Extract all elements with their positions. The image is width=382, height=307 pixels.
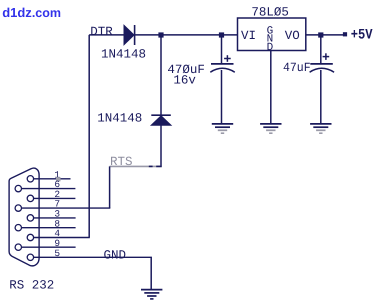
- pin 3 circle: [27, 215, 33, 221]
- grey junction blob between 1 and 6: [56, 177, 61, 181]
- pin 1 circle: [27, 176, 33, 182]
- ground symbol under regulator: [260, 124, 281, 133]
- pin number 9: [54, 238, 60, 249]
- wire riser from VO junction down to capacitor C2: [320, 35, 322, 64]
- pin 2 circle: [27, 195, 33, 201]
- wire VO output rail to +5V terminal: [306, 34, 344, 36]
- value label 470uF: [167, 63, 205, 77]
- wire pin 4 to DTR bus: [34, 237, 90, 239]
- svg-text:d1dz.com: d1dz.com: [2, 5, 61, 20]
- connector J1 DB9 outline: [9, 168, 39, 266]
- svg-text:RS 232: RS 232: [9, 279, 54, 293]
- wire pin 2 stub: [34, 197, 76, 199]
- junction node rail/D2 riser: [158, 32, 163, 37]
- svg-text:78LØ5: 78LØ5: [251, 6, 289, 20]
- pin label VI: [241, 29, 256, 43]
- wire from D2 anode down to RTS corner: [160, 125, 162, 166]
- capacitor C1 470uF polarized: [210, 64, 235, 123]
- wire pin 9 stub: [22, 246, 76, 248]
- label DTR: [90, 25, 113, 39]
- wire main rail from D1 cathode to regulator VI pin: [135, 34, 238, 36]
- value label 1N4148 (D1): [101, 47, 146, 61]
- wire DTR horizontal from left corner to diode D1 anode: [89, 34, 124, 36]
- wire regulator GND pin down to ground: [270, 51, 272, 124]
- pin number 6: [54, 179, 60, 190]
- pin 8 circle: [15, 225, 21, 231]
- terminal square +5V: [343, 32, 347, 36]
- value label 47uF: [283, 61, 311, 75]
- logo d1dz.com: [2, 5, 61, 20]
- label GND net: [104, 249, 127, 263]
- pin number 7: [54, 199, 60, 210]
- label +5V: [351, 28, 373, 44]
- ground symbol bottom (GND net): [141, 290, 162, 299]
- wire RTS riser down to pin 7: [109, 166, 111, 208]
- wire GND drop down to ground: [150, 257, 152, 289]
- label RS 232: [9, 279, 54, 293]
- svg-text:VI: VI: [241, 29, 256, 43]
- svg-text:+5V: +5V: [351, 28, 373, 44]
- ground symbol under C1: [212, 124, 233, 133]
- wire riser from rail down to D2 cathode: [160, 35, 162, 115]
- value label 16v: [173, 74, 196, 88]
- plus polarity mark of C1: [224, 55, 231, 62]
- svg-text:1N4148: 1N4148: [101, 47, 146, 61]
- pin number 4: [54, 228, 60, 239]
- wire pin 5 to GND drop: [34, 256, 152, 258]
- pin number 2: [54, 189, 60, 200]
- capacitor C2 47uF polarized: [310, 64, 335, 123]
- pin number 1: [54, 169, 60, 180]
- svg-text:5: 5: [54, 248, 60, 259]
- pin 4 circle: [27, 234, 33, 240]
- junction node rail/C1 riser: [219, 32, 224, 37]
- pin 6 circle: [15, 185, 21, 191]
- value label 1N4148 (D2): [97, 112, 142, 126]
- svg-text:16v: 16v: [173, 74, 196, 88]
- svg-text:RTS: RTS: [110, 155, 133, 169]
- label RTS: [110, 155, 133, 169]
- pin 7 circle: [15, 205, 21, 211]
- svg-text:GND: GND: [104, 249, 127, 263]
- svg-text:47uF: 47uF: [283, 61, 311, 75]
- pin label VO: [285, 29, 300, 43]
- junction node VO rail/C2 riser: [318, 32, 323, 37]
- diode D2 1N4148 (RTS diode, pointing up): [151, 115, 171, 125]
- wire pin 3 stub: [34, 217, 76, 219]
- pin 9 circle: [15, 244, 21, 250]
- wire pin 8 stub: [22, 227, 76, 229]
- wire riser from rail junction down to capacitor C1: [221, 35, 223, 64]
- pin number 8: [54, 218, 60, 229]
- pin number 5: [54, 248, 60, 259]
- pin 5 circle: [27, 254, 33, 260]
- svg-text:VO: VO: [285, 29, 300, 43]
- svg-text:1N4148: 1N4148: [97, 112, 142, 126]
- svg-text:DTR: DTR: [90, 25, 113, 39]
- regulator U1 78L05 box: [238, 18, 306, 51]
- wire RTS horizontal (grey segment with navy dashes): [110, 165, 162, 167]
- pin number 3: [54, 209, 60, 220]
- plus polarity mark of C2: [323, 53, 330, 60]
- pin label GND (stacked): [267, 25, 274, 54]
- wire pin 7 to RTS riser: [22, 207, 111, 209]
- wire pin 1 stub: [34, 178, 71, 180]
- ground symbol under C2: [310, 124, 331, 133]
- wire pin 6 stub: [22, 188, 76, 190]
- wire vertical bus from DTR corner down to pin 4: [88, 35, 90, 238]
- diode D1 1N4148 (DTR series diode, pointing right): [124, 25, 135, 45]
- part label 78L05: [251, 6, 289, 20]
